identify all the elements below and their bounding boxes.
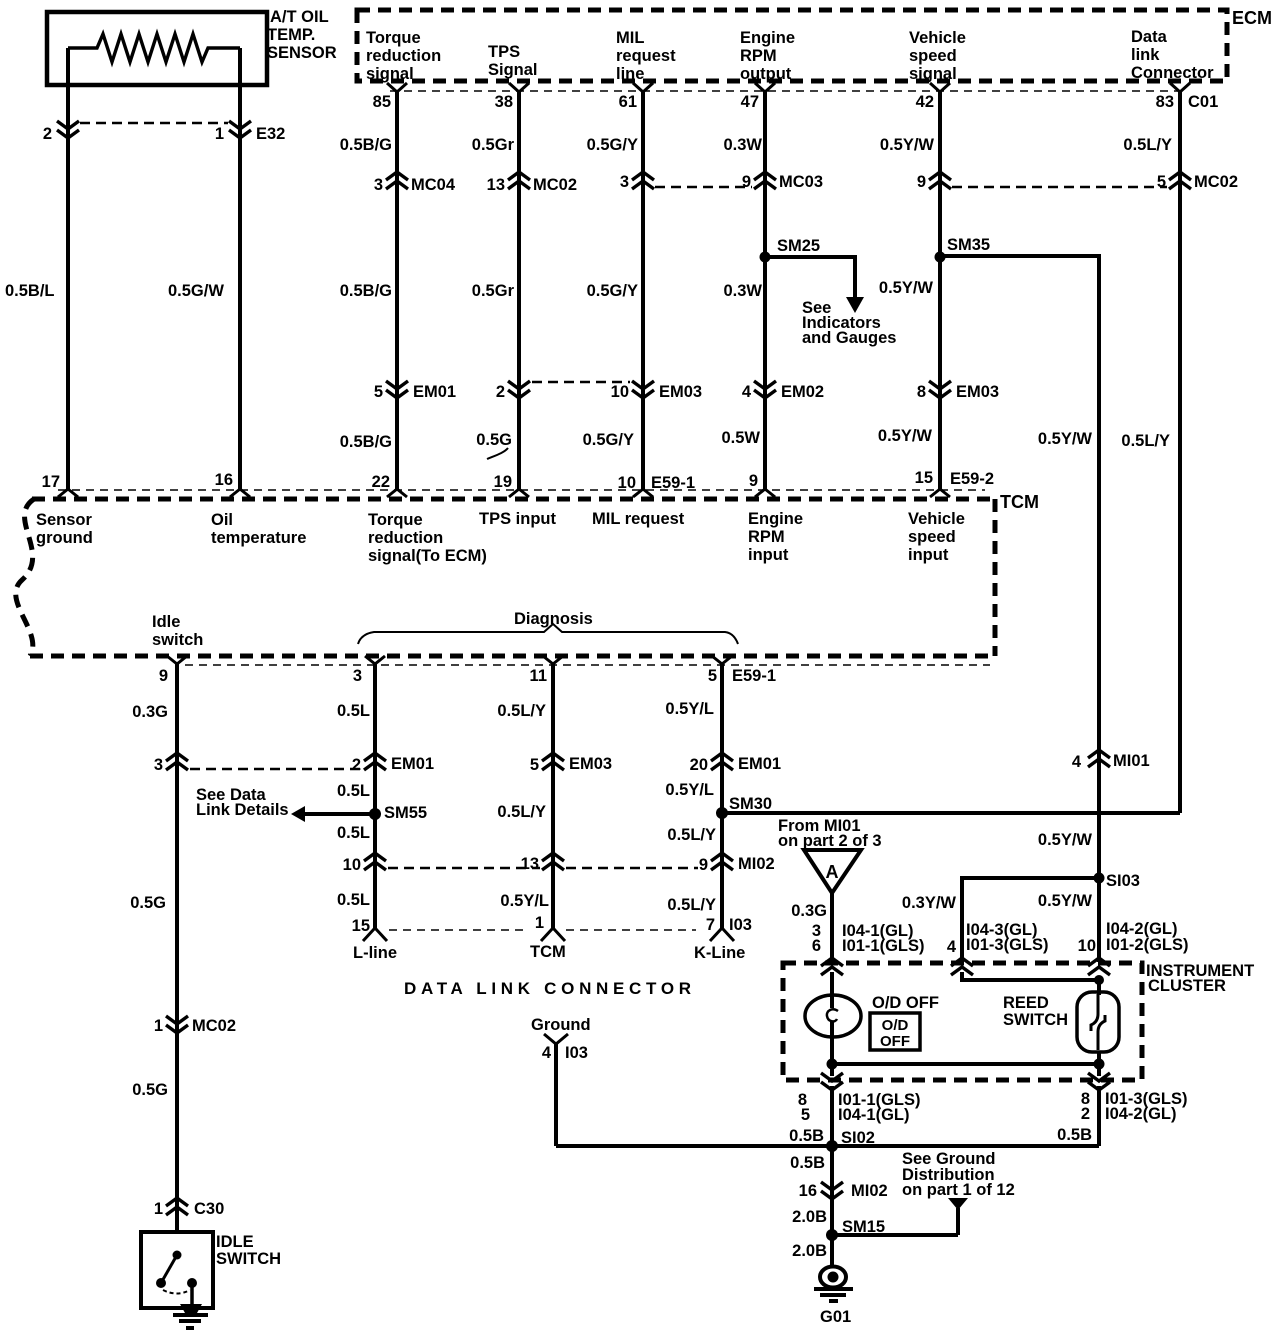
svg-text:EM03: EM03 — [659, 383, 702, 401]
svg-text:ECM: ECM — [1232, 8, 1272, 28]
svg-text:0.5L: 0.5L — [337, 702, 370, 720]
svg-text:and Gauges: and Gauges — [802, 329, 896, 347]
svg-text:TEMP.: TEMP. — [267, 26, 315, 44]
svg-text:MI01: MI01 — [1113, 752, 1150, 770]
TCM box torn left edge — [16, 499, 34, 656]
pin labels 8 I01-3(GLS) / 2 I04-2(GL) — [1081, 1090, 1188, 1123]
svg-text:1: 1 — [154, 1017, 163, 1035]
svg-text:0.5B/G: 0.5B/G — [340, 433, 392, 451]
dashed link 3 to MC03 — [655, 186, 752, 189]
svg-text:10: 10 — [343, 856, 361, 874]
svg-text:0.5L: 0.5L — [337, 782, 370, 800]
svg-text:C01: C01 — [1188, 93, 1218, 111]
connector E32 pin 2 — [43, 121, 79, 143]
svg-text:0.5W: 0.5W — [721, 429, 760, 447]
svg-text:9: 9 — [699, 856, 708, 874]
connector EM02 pin 4 — [742, 381, 824, 401]
svg-text:E32: E32 — [256, 125, 285, 143]
connector MC02 pin 13 — [487, 172, 577, 194]
svg-text:OFF: OFF — [880, 1033, 910, 1050]
instrument cluster box — [783, 963, 1142, 1080]
svg-text:9: 9 — [749, 472, 758, 490]
svg-text:0.3Y/W: 0.3Y/W — [902, 894, 957, 912]
svg-text:8: 8 — [917, 383, 926, 401]
svg-text:22: 22 — [372, 473, 390, 491]
TCM pin 9 — [749, 472, 775, 497]
label idle switch — [152, 613, 203, 649]
wire label 0.5G with leader — [476, 431, 512, 459]
svg-text:input: input — [748, 546, 789, 564]
svg-text:signal: signal — [366, 65, 414, 83]
svg-text:MIL: MIL — [616, 29, 644, 47]
ECM pin 47 — [741, 83, 775, 111]
svg-text:16: 16 — [799, 1182, 817, 1200]
TCM pin 16 — [215, 471, 250, 497]
node SM35 — [935, 236, 991, 263]
svg-text:link: link — [1131, 46, 1160, 64]
connector pin 9 (vehicle speed) — [917, 172, 951, 191]
ground distribution arrow — [948, 1198, 968, 1235]
svg-text:2: 2 — [496, 383, 505, 401]
DLC pin 7 / I03 (K-line) — [706, 916, 752, 941]
svg-text:0.5Y/L: 0.5Y/L — [665, 781, 714, 799]
TCM pin 3 — [353, 656, 385, 685]
svg-text:9: 9 — [742, 173, 751, 191]
node SM55 — [369, 804, 427, 822]
label INSTRUMENT CLUSTER — [1146, 962, 1254, 995]
ground bus wire SI02 — [556, 1144, 1099, 1148]
DLC pin 1 (TCM) — [535, 914, 565, 941]
svg-text:temperature: temperature — [211, 529, 306, 547]
svg-text:0.5Y/W: 0.5Y/W — [878, 427, 933, 445]
off-page triangle A — [804, 850, 861, 893]
note from MI01 on part 2 of 3 — [778, 817, 882, 850]
svg-text:0.5B: 0.5B — [789, 1127, 824, 1145]
svg-text:7: 7 — [706, 916, 715, 934]
svg-text:CLUSTER: CLUSTER — [1148, 977, 1226, 995]
svg-text:MC02: MC02 — [533, 176, 577, 194]
svg-text:TPS: TPS — [488, 43, 520, 61]
svg-text:4: 4 — [542, 1044, 552, 1062]
svg-text:0.5B: 0.5B — [1057, 1126, 1092, 1144]
svg-text:MC02: MC02 — [1194, 173, 1238, 191]
connector MI02 pin 16 — [799, 1182, 888, 1200]
svg-text:0.5Y/W: 0.5Y/W — [1038, 831, 1093, 849]
svg-text:0.5L: 0.5L — [337, 824, 370, 842]
svg-text:5: 5 — [1157, 173, 1166, 191]
wire TPS signal (38->19) — [517, 92, 521, 489]
cluster entry connector (pin 10) — [1088, 958, 1110, 975]
svg-text:Torque: Torque — [366, 29, 421, 47]
wire idle switch (0.3G/0.5G) — [175, 664, 179, 1232]
svg-text:0.5L/Y: 0.5L/Y — [667, 896, 716, 914]
svg-text:85: 85 — [373, 93, 391, 111]
svg-text:I01-2(GLS): I01-2(GLS) — [1106, 936, 1189, 954]
svg-text:5: 5 — [530, 756, 539, 774]
svg-text:MIL request: MIL request — [592, 510, 685, 528]
pin label 10 I04-2(GL) / I01-2(GLS) — [1078, 920, 1189, 955]
svg-text:TCM: TCM — [1000, 492, 1039, 512]
svg-text:42: 42 — [916, 93, 934, 111]
connector pin 10 (L-line) — [343, 853, 386, 874]
TCM pin 15 / E59-2 — [915, 469, 994, 497]
connector EM03 pin 5 — [530, 753, 612, 774]
svg-text:0.5Y/W: 0.5Y/W — [1038, 430, 1093, 448]
connector E32 dashed link — [80, 122, 228, 125]
svg-text:0.5L/Y: 0.5L/Y — [497, 803, 546, 821]
svg-text:19: 19 — [494, 473, 512, 491]
wire reed top stub — [1097, 982, 1101, 995]
note see ground distribution — [902, 1150, 1015, 1199]
svg-text:input: input — [908, 546, 949, 564]
svg-text:0.5G/W: 0.5G/W — [168, 282, 224, 300]
cluster entry connector (O/D lamp) — [821, 958, 843, 975]
svg-text:Vehicle: Vehicle — [908, 510, 965, 528]
wire engine RPM output (47->9) — [763, 92, 767, 489]
svg-text:MC04: MC04 — [411, 176, 456, 194]
svg-text:0.5G: 0.5G — [130, 894, 166, 912]
wire torque reduction signal (85->22) — [395, 92, 399, 489]
svg-text:17: 17 — [42, 473, 60, 491]
svg-text:16: 16 — [215, 471, 233, 489]
cluster exit connector (left) — [821, 1073, 843, 1090]
TCM pin 11 — [530, 656, 563, 685]
svg-text:output: output — [740, 65, 792, 83]
svg-text:TCM: TCM — [530, 943, 566, 961]
svg-text:0.5L/Y: 0.5L/Y — [497, 702, 546, 720]
svg-text:IDLE: IDLE — [216, 1233, 254, 1251]
wire diagnosis TCM — [551, 664, 555, 928]
note see indicators and gauges — [802, 299, 896, 347]
svg-text:L-line: L-line — [353, 944, 397, 962]
svg-text:2: 2 — [352, 756, 361, 774]
svg-text:TPS input: TPS input — [479, 510, 556, 528]
svg-text:Engine: Engine — [740, 29, 795, 47]
svg-text:SM55: SM55 — [384, 804, 427, 822]
idle switch box — [141, 1232, 213, 1308]
svg-text:0.5L/Y: 0.5L/Y — [1123, 136, 1172, 154]
arrow to data link details — [291, 806, 375, 822]
svg-text:reduction: reduction — [366, 47, 441, 65]
svg-text:line: line — [616, 65, 644, 83]
svg-text:Torque: Torque — [368, 511, 423, 529]
svg-text:switch: switch — [152, 631, 203, 649]
svg-text:DATA LINK CONNECTOR: DATA LINK CONNECTOR — [404, 979, 696, 998]
connector MC02 pin 1 (idle) — [154, 1016, 236, 1035]
svg-text:0.5Y/W: 0.5Y/W — [879, 279, 934, 297]
svg-text:Vehicle: Vehicle — [909, 29, 966, 47]
O/D OFF lamp — [805, 995, 861, 1037]
note see data link details — [196, 786, 289, 819]
wire SM30 branch to data link 0.5L/Y — [722, 811, 1180, 815]
TCM pin 17 — [42, 473, 78, 497]
TCM pin 22 — [372, 473, 407, 497]
svg-text:0.5L: 0.5L — [337, 891, 370, 909]
svg-text:0.5Gr: 0.5Gr — [472, 282, 515, 300]
svg-text:3: 3 — [353, 667, 362, 685]
svg-text:SI02: SI02 — [841, 1129, 875, 1147]
label REED SWITCH — [1003, 994, 1068, 1029]
svg-text:reduction: reduction — [368, 529, 443, 547]
wire sensor pin 2 — [66, 48, 70, 489]
pin label 4 I04-3(GL) / I01-3(GLS) — [947, 921, 1049, 956]
connector pin 2 — [496, 381, 530, 401]
svg-text:on part 1 of 12: on part 1 of 12 — [902, 1181, 1015, 1199]
TCM box bottom edge — [30, 654, 995, 659]
svg-text:3: 3 — [620, 173, 629, 191]
svg-text:RPM: RPM — [740, 47, 777, 65]
svg-text:G01: G01 — [820, 1308, 851, 1326]
wire SM25 branch — [765, 257, 855, 299]
connector MC04 pin 3 — [374, 172, 456, 194]
svg-text:4: 4 — [742, 383, 752, 401]
wire sensor pin 1 — [238, 48, 242, 489]
wire SM35 branch to instrument cluster — [940, 256, 1099, 878]
TCM pin 9 (idle switch) — [159, 656, 187, 685]
svg-text:4: 4 — [947, 938, 957, 956]
svg-text:speed: speed — [908, 528, 956, 546]
svg-text:10: 10 — [611, 383, 629, 401]
svg-text:Signal: Signal — [488, 61, 538, 79]
svg-text:61: 61 — [619, 93, 637, 111]
diagnosis brace — [358, 624, 738, 644]
svg-text:SM30: SM30 — [729, 795, 772, 813]
svg-text:6: 6 — [812, 937, 821, 955]
cluster bottom bus wire — [832, 1062, 1099, 1066]
DLC dashed link 1 to 7 — [566, 929, 696, 931]
connector pin 13 — [521, 853, 564, 873]
node SM25 — [760, 237, 821, 263]
wire MIL request line (61->10) — [641, 92, 645, 489]
svg-text:request: request — [616, 47, 676, 65]
idle switch ground — [173, 1304, 208, 1328]
svg-text:0.5B/L: 0.5B/L — [5, 282, 55, 300]
wire 0.3G from triangle A — [830, 893, 834, 962]
svg-text:38: 38 — [495, 93, 513, 111]
svg-text:2: 2 — [43, 125, 52, 143]
svg-text:0.5Y/W: 0.5Y/W — [880, 136, 935, 154]
svg-text:I04-1(GL): I04-1(GL) — [838, 1106, 910, 1124]
ECM connector C01 dashed line — [390, 90, 1186, 92]
svg-text:EM01: EM01 — [738, 755, 781, 773]
svg-text:RPM: RPM — [748, 528, 785, 546]
connector EM01 pin 2 — [352, 753, 434, 774]
ECM output labels — [366, 28, 1214, 83]
svg-text:3: 3 — [374, 176, 383, 194]
label IDLE SWITCH — [216, 1233, 281, 1268]
connector EM03 pin 8 — [917, 381, 999, 401]
svg-text:1: 1 — [154, 1200, 163, 1218]
DLC ground pin 4 I03 — [542, 1034, 588, 1062]
svg-text:MI02: MI02 — [851, 1182, 888, 1200]
ECM pin 38 — [495, 83, 529, 111]
ground G01 — [814, 1267, 853, 1327]
svg-text:EM03: EM03 — [956, 383, 999, 401]
junction dot reed bottom — [1094, 1059, 1105, 1070]
svg-text:K-Line: K-Line — [694, 944, 745, 962]
svg-text:15: 15 — [352, 917, 370, 935]
svg-text:0.5Y/L: 0.5Y/L — [665, 700, 714, 718]
TCM connector thin dashed line — [58, 489, 985, 491]
svg-text:SM25: SM25 — [777, 237, 820, 255]
svg-text:10: 10 — [1078, 937, 1096, 955]
svg-text:0.5B/G: 0.5B/G — [340, 136, 392, 154]
connector pin 3 (idle) — [154, 753, 188, 774]
connector MC02 pin 5 — [1157, 172, 1238, 191]
svg-text:Data: Data — [1131, 28, 1168, 46]
pin labels 8 I01-1(GLS) / 5 I04-1(GL) — [798, 1091, 921, 1124]
svg-text:EM01: EM01 — [391, 755, 434, 773]
reed switch — [1077, 992, 1119, 1052]
svg-text:15: 15 — [915, 469, 933, 487]
DLC pin 15 (L-line) — [352, 917, 387, 941]
wire lamp vertical — [830, 972, 834, 1008]
wire lamp to bottom — [830, 1037, 834, 1076]
node SM30 — [716, 795, 772, 819]
svg-text:MC02: MC02 — [192, 1017, 236, 1035]
junction dot reed top — [1094, 975, 1104, 985]
svg-text:47: 47 — [741, 93, 759, 111]
svg-text:O/D OFF: O/D OFF — [872, 994, 939, 1012]
svg-text:signal: signal — [909, 65, 957, 83]
dashed link 3 to EM01 — [190, 768, 362, 771]
svg-text:0.3W: 0.3W — [723, 282, 762, 300]
wire ground I03 — [554, 1044, 558, 1146]
wire K-line — [720, 664, 724, 928]
cluster entry connector (pin 4) — [951, 958, 973, 975]
svg-text:Idle: Idle — [152, 613, 180, 631]
svg-text:I01-1(GLS): I01-1(GLS) — [842, 937, 925, 955]
svg-text:0.5G: 0.5G — [132, 1081, 168, 1099]
svg-text:0.5Gr: 0.5Gr — [472, 136, 515, 154]
pin labels 3 I04-1(GL) / 6 I01-1(GLS) — [812, 922, 925, 955]
connector EM03 pin 10 — [611, 381, 702, 401]
cluster exit connector (right) — [1088, 1073, 1110, 1090]
svg-text:2.0B: 2.0B — [792, 1208, 827, 1226]
wire SM15 branch — [832, 1233, 958, 1237]
svg-text:0.5Y/L: 0.5Y/L — [500, 892, 549, 910]
svg-text:REED: REED — [1003, 994, 1049, 1012]
svg-text:0.5G/Y: 0.5G/Y — [583, 431, 634, 449]
svg-text:on part 2 of 3: on part 2 of 3 — [778, 832, 882, 850]
svg-text:SWITCH: SWITCH — [1003, 1011, 1068, 1029]
TCM bottom thin dashed line — [185, 664, 990, 666]
svg-text:0.5G: 0.5G — [476, 431, 512, 449]
svg-text:Engine: Engine — [748, 510, 803, 528]
TCM pin 5 / E59-1 — [708, 656, 776, 685]
wire vehicle speed signal (42->15) — [938, 92, 942, 489]
connector E32 pin 1 — [215, 121, 286, 143]
svg-text:20: 20 — [690, 756, 708, 774]
svg-text:0.3G: 0.3G — [791, 902, 827, 920]
arrow to indicators and gauges — [846, 297, 864, 313]
dashed link 2 to 10 — [532, 381, 630, 384]
wire data link 0.5L/Y (83->SM30) — [1178, 92, 1182, 813]
svg-text:I03: I03 — [565, 1044, 588, 1062]
connector MC03 pin 9 — [742, 172, 823, 191]
svg-text:5: 5 — [801, 1106, 810, 1124]
svg-text:Sensor: Sensor — [36, 511, 93, 529]
svg-text:MI02: MI02 — [738, 855, 775, 873]
ECM box — [357, 8, 1272, 81]
connector pin 3 (MIL) — [620, 172, 654, 191]
TCM box top edge — [32, 497, 995, 502]
label A/T OIL TEMP. SENSOR — [267, 8, 337, 62]
connector EM01 pin 20 — [690, 753, 781, 774]
svg-text:3: 3 — [154, 756, 163, 774]
wire reed to bottom — [1097, 1052, 1101, 1076]
svg-text:SI03: SI03 — [1106, 872, 1140, 890]
TCM box right edge — [993, 499, 998, 656]
svg-text:EM03: EM03 — [569, 755, 612, 773]
svg-text:2: 2 — [1081, 1105, 1090, 1123]
svg-text:0.5B: 0.5B — [790, 1154, 825, 1172]
O/D OFF indicator box — [870, 1013, 920, 1050]
svg-text:2.0B: 2.0B — [792, 1242, 827, 1260]
ECM pin 42 — [916, 83, 950, 111]
resistor (sensor element) — [68, 34, 240, 62]
wire right 0.5B — [1097, 1086, 1101, 1146]
svg-text:A/T OIL: A/T OIL — [270, 8, 329, 26]
svg-text:9: 9 — [159, 667, 168, 685]
ECM pin 85 — [373, 83, 407, 111]
connector MI02 pin 9 — [699, 853, 775, 874]
svg-text:13: 13 — [487, 176, 505, 194]
svg-text:0.5G/Y: 0.5G/Y — [587, 136, 638, 154]
svg-text:SWITCH: SWITCH — [216, 1250, 281, 1268]
svg-text:E59-2: E59-2 — [950, 470, 994, 488]
svg-text:83: 83 — [1156, 93, 1174, 111]
svg-text:Oil: Oil — [211, 511, 233, 529]
svg-text:E59-1: E59-1 — [732, 667, 776, 685]
connector C30 pin 1 — [154, 1198, 224, 1218]
svg-text:11: 11 — [530, 667, 547, 685]
svg-text:0.5B/G: 0.5B/G — [340, 282, 392, 300]
svg-text:signal(To ECM): signal(To ECM) — [368, 547, 487, 565]
svg-text:I03: I03 — [729, 916, 752, 934]
DLC dashed link 15 to 1 — [389, 929, 527, 931]
wire pin4 to reed wire — [962, 972, 1099, 980]
svg-text:MC03: MC03 — [779, 173, 823, 191]
dashed link 10 to 13 — [388, 867, 540, 870]
TCM input labels — [36, 510, 965, 565]
svg-text:Link Details: Link Details — [196, 801, 289, 819]
svg-text:SM35: SM35 — [947, 236, 990, 254]
node SI03 — [1094, 872, 1140, 890]
svg-text:C30: C30 — [194, 1200, 224, 1218]
ECM pin 83 / C01 — [1156, 83, 1219, 111]
svg-text:0.3G: 0.3G — [132, 703, 168, 721]
svg-text:0.5G/Y: 0.5G/Y — [587, 282, 638, 300]
svg-text:0.3W: 0.3W — [723, 136, 762, 154]
svg-text:0.5L/Y: 0.5L/Y — [1121, 432, 1170, 450]
svg-text:Ground: Ground — [531, 1016, 591, 1034]
svg-text:A: A — [826, 862, 839, 882]
svg-text:EM01: EM01 — [413, 383, 456, 401]
TCM pin 10 / E59-1 — [618, 474, 695, 497]
wire L-line — [373, 664, 377, 928]
svg-text:Connector: Connector — [1131, 64, 1214, 82]
svg-text:I01-3(GLS): I01-3(GLS) — [966, 936, 1049, 954]
node SM15 — [826, 1218, 885, 1241]
svg-text:5: 5 — [374, 383, 383, 401]
ECM pin 61 — [619, 83, 653, 111]
wire SI03 branch — [962, 878, 1099, 962]
svg-text:1: 1 — [215, 125, 224, 143]
svg-text:O/D: O/D — [882, 1017, 909, 1034]
connector EM01 pin 5 — [374, 381, 456, 401]
svg-text:speed: speed — [909, 47, 957, 65]
